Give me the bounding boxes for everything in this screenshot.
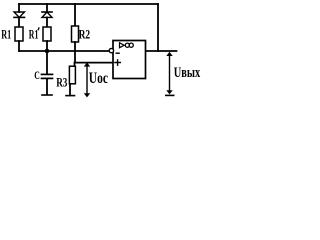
wire top feedback rail [19,3,158,5]
wire D1 anode [18,4,20,12]
voltage arrow Uoc [84,62,90,97]
diode VD2 [42,12,52,17]
svg-text:Uвых: Uвых [174,65,201,81]
wire R2 top [74,4,76,26]
wire R3 bottom [69,84,71,95]
wire non-inverting bus [75,62,113,64]
wire D2 top [46,4,48,12]
diode VD1 [14,12,25,17]
svg-text:R1: R1 [29,26,39,41]
resistor R3 [69,66,75,84]
wire D2 to R1' [46,17,48,27]
op-amp gain triangle symbol [120,43,125,48]
wire junction to capacitor [46,51,48,74]
svg-text:R2: R2 [79,26,91,41]
svg-text:R3: R3 [56,76,67,90]
capacitor C [42,74,53,78]
op-amp plus sign [114,59,121,66]
terminal bar R3 [66,95,75,97]
wire D1 cathode to R1 [18,17,20,27]
resistor R1 [15,27,23,41]
wire R3 top [74,63,76,66]
junction dot R1'/C on inverting bus [45,49,50,54]
wire R2 bottom crossing inverting bus [74,42,76,63]
op-amp infinity symbol [125,43,129,47]
op-amp U1 [109,41,145,79]
op-amp inverting input bubble [109,48,113,52]
resistor R1' [43,27,51,41]
wire capacitor bottom [46,79,48,95]
terminal bar capacitor [42,94,52,96]
wire feedback vertical [157,4,159,51]
prime mark of R1' [38,27,39,30]
wire inverting bus [19,50,109,52]
wire R1' bottom to junction [46,41,48,51]
wire R1 bottom to inverting bus [18,41,20,51]
op-amp minus sign [116,52,120,54]
svg-text:C: C [34,68,40,82]
svg-text:R1: R1 [1,26,11,41]
voltage arrow Uout [165,52,175,96]
wire op-amp output [146,50,177,52]
resistor R2 [72,26,79,42]
terminal bar Uout [165,94,175,96]
svg-text:Uoc: Uoc [89,70,108,87]
